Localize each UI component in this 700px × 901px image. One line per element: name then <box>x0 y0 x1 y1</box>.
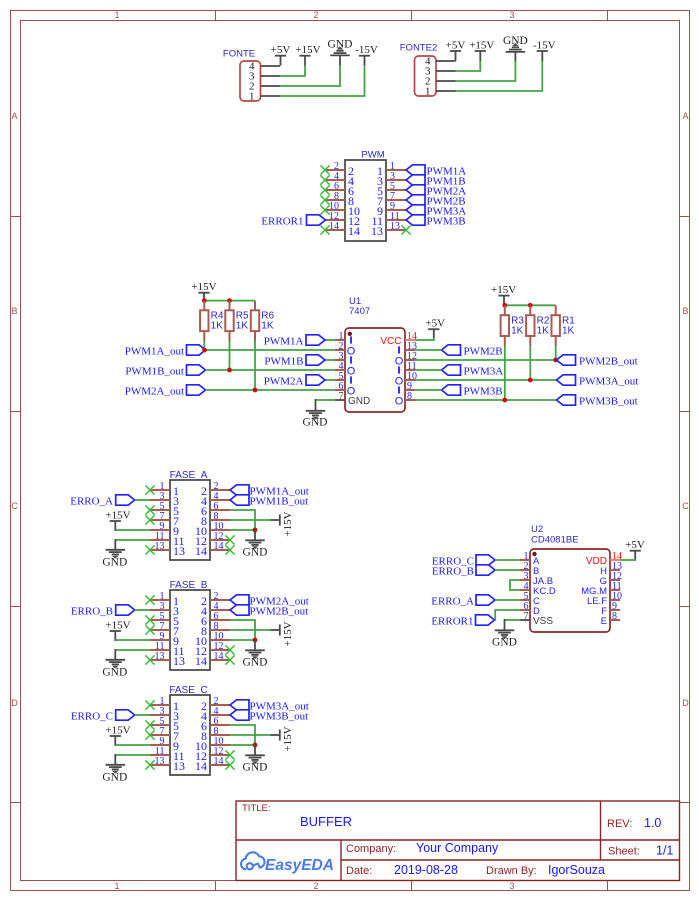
svg-text:14: 14 <box>329 221 339 232</box>
connector FONTE <box>240 61 261 101</box>
svg-text:CD4081BE: CD4081BE <box>531 535 579 546</box>
net port ERROR1 (PWM pin12) <box>307 215 326 225</box>
svg-text:1K: 1K <box>261 321 274 332</box>
svg-text:PWM3B_out: PWM3B_out <box>250 710 309 722</box>
svg-text:1: 1 <box>249 90 255 102</box>
svg-text:PWM1B_out: PWM1B_out <box>125 365 184 377</box>
svg-text:+15V: +15V <box>282 511 294 536</box>
power +15V right rotated (FASE C pin8) <box>271 734 280 736</box>
svg-text:PWM3A_out: PWM3A_out <box>579 375 638 387</box>
svg-text:1K: 1K <box>562 326 575 337</box>
wire +15V feed to resistor tops <box>204 300 255 302</box>
svg-text:8: 8 <box>612 611 617 622</box>
svg-text:GND: GND <box>243 547 268 559</box>
junction R1 bottom <box>553 358 558 363</box>
wire FASE A pin6 down <box>230 510 255 530</box>
wire FONTE2 pin3 to +15V <box>456 61 481 71</box>
svg-text:GND: GND <box>102 666 127 678</box>
junction FASE C right <box>253 743 258 748</box>
wire U2 pin3 to pin4 loop <box>510 580 520 590</box>
svg-text:3: 3 <box>509 881 514 891</box>
net port PWM1A (PWM) <box>406 165 425 175</box>
ground GND right (FASE C) <box>254 745 256 755</box>
power +5V at U2 pin14 <box>630 550 641 552</box>
net port PWM3A_out <box>557 375 576 385</box>
svg-text:14: 14 <box>195 544 207 558</box>
FASE C right pin stubs <box>210 704 230 706</box>
U1 right pin stubs 13-8 <box>405 349 415 351</box>
wire U1 pin14 to +5V <box>415 338 434 340</box>
svg-text:+15V: +15V <box>469 39 494 51</box>
no-connect X FASE C left pins <box>145 700 154 709</box>
svg-text:C: C <box>11 501 18 511</box>
connector PWM <box>345 160 386 241</box>
svg-text:1: 1 <box>114 881 119 891</box>
net port PWM1B_out (FASE A pin4) <box>230 495 249 505</box>
U1 pin name I/O marks left <box>350 336 352 343</box>
svg-text:A: A <box>682 111 688 121</box>
wire +15V to FASE A pin9 <box>115 529 150 531</box>
svg-text:14: 14 <box>214 756 224 767</box>
svg-text:13: 13 <box>173 759 185 773</box>
net port PWM2B (PWM) <box>406 195 425 205</box>
svg-text:ERROR1: ERROR1 <box>261 215 303 227</box>
net port PWM1B (U1 pin3) <box>306 355 325 365</box>
svg-text:1K: 1K <box>511 326 524 337</box>
resistor R1 1K <box>555 305 557 315</box>
svg-text:+15V: +15V <box>282 621 294 646</box>
svg-text:1.0: 1.0 <box>644 816 661 830</box>
wire FASE C pin6 down <box>230 725 255 745</box>
svg-text:+15V: +15V <box>295 44 320 56</box>
svg-text:TITLE:: TITLE: <box>242 803 271 814</box>
svg-text:GND: GND <box>328 38 353 50</box>
svg-text:14: 14 <box>195 759 207 773</box>
svg-text:13: 13 <box>390 221 400 232</box>
wire FASE A pin10 to junction <box>230 529 255 531</box>
wire ERRO_C to U2 pin1 <box>495 559 520 561</box>
junction at R5 top <box>227 298 232 303</box>
net port PWM3B_out (FASE C pin4) <box>230 710 249 720</box>
svg-text:13: 13 <box>371 224 383 238</box>
svg-text:8: 8 <box>407 391 412 402</box>
svg-text:FASE_B: FASE_B <box>170 580 208 591</box>
net port PWM2A (PWM) <box>406 185 425 195</box>
U1 pin7 stub (GND) <box>335 399 345 401</box>
U1 left pin stubs 1-6 <box>335 339 345 341</box>
svg-text:PWM2B_out: PWM2B_out <box>250 605 309 617</box>
svg-text:+5V: +5V <box>446 39 466 51</box>
svg-text:FONTE2: FONTE2 <box>400 43 437 54</box>
svg-text:GND: GND <box>303 416 328 428</box>
svg-text:ERRO_B: ERRO_B <box>432 565 474 577</box>
power +5V at U1 pin14 <box>428 328 439 330</box>
svg-text:FASE_C: FASE_C <box>169 685 207 696</box>
no-connect X FASE A left pins <box>145 485 154 494</box>
svg-text:O: O <box>347 345 356 357</box>
power +15V feeding R4 R5 R6 <box>198 292 209 294</box>
svg-text:B: B <box>682 306 688 316</box>
ground GND (FONTE2 pin2) <box>506 44 526 52</box>
wire PWM1A_out to U1 pin2 <box>206 349 336 351</box>
svg-text:1: 1 <box>425 85 431 97</box>
svg-text:PWM2B_out: PWM2B_out <box>579 355 638 367</box>
connector FONTE2 <box>415 56 437 96</box>
net port PWM1B_out <box>187 365 206 375</box>
svg-text:IgorSouza: IgorSouza <box>548 863 605 877</box>
net port ERRO_A (FASE A pin3) <box>116 495 135 505</box>
svg-text:7: 7 <box>339 391 344 402</box>
wire U1 pin12 to PWM2B_out <box>415 359 557 361</box>
net port PWM1B (PWM) <box>406 175 425 185</box>
U2 pin14 stub (VDD) <box>610 559 620 561</box>
svg-text:+15V: +15V <box>282 726 294 751</box>
power +5V (FONTE2 pin4) <box>450 50 461 52</box>
svg-text:Your Company: Your Company <box>416 841 499 855</box>
svg-text:+5V: +5V <box>625 539 645 551</box>
svg-text:2: 2 <box>313 881 318 891</box>
no-connect X FASE A right pins <box>225 535 234 544</box>
junction FASE B right <box>253 638 258 643</box>
no-connect X FASE B right pins <box>225 645 234 654</box>
net port ERROR1 (U2 pin6) <box>476 615 495 625</box>
svg-text:D: D <box>11 698 18 708</box>
resistor R6 1K <box>254 301 256 311</box>
svg-text:13: 13 <box>155 651 165 662</box>
svg-text:PWM2A_out: PWM2A_out <box>125 385 184 397</box>
net port PWM2B_out (FASE B pin4) <box>230 605 249 615</box>
FONTE2 pin stubs <box>436 60 456 62</box>
svg-text:1/1: 1/1 <box>656 844 673 858</box>
power +15V left (FASE B pin9) <box>110 630 121 632</box>
svg-text:GND: GND <box>492 637 517 649</box>
wire U1 pin8 to PWM3B_out <box>415 399 557 401</box>
wire +15V feed to resistor tops right <box>505 304 556 306</box>
net port PWM2A_out <box>187 385 206 395</box>
svg-text:7407: 7407 <box>349 306 370 317</box>
svg-text:ERROR1: ERROR1 <box>431 615 473 627</box>
power -15V (FONTE2 pin1) <box>537 50 548 52</box>
power -15V (FONTE pin1) <box>359 55 370 57</box>
no-connect X FASE C right pins <box>225 750 234 759</box>
net port PWM2A_out (FASE B pin2) <box>230 595 249 605</box>
svg-text:+15V: +15V <box>105 619 130 631</box>
logic IC U2 CD4081BE body <box>530 549 610 632</box>
wire +15V to FASE C pin9 <box>115 744 150 746</box>
power +15V feeding R1 R2 R3 <box>498 295 509 297</box>
no-connect X FASE B left pins <box>145 595 154 604</box>
no-connect X PWM pin 13 <box>401 225 410 234</box>
PWM left pin stubs <box>325 169 345 171</box>
svg-text:14: 14 <box>348 224 360 238</box>
EasyEDA logo <box>241 852 265 869</box>
svg-text:E: E <box>601 616 607 627</box>
power +5V (FONTE pin4) <box>275 55 286 57</box>
wire ERROR1 to U2 pin6 <box>495 610 521 620</box>
svg-text:ERRO_A: ERRO_A <box>431 595 474 607</box>
wire U2 pin7 to GND <box>505 619 521 621</box>
PWM right pin stubs <box>386 169 406 171</box>
FASE A right pin stubs <box>210 489 230 491</box>
junction at R3 top <box>502 303 507 308</box>
wire ERRO_B to U2 pin2 <box>495 569 520 571</box>
net port PWM1A_out <box>187 345 206 355</box>
wire ERRO_C to FASE C pin3 <box>135 714 150 716</box>
power +15V left (FASE C pin9) <box>110 735 121 737</box>
power +15V right rotated (FASE A pin8) <box>271 519 280 521</box>
svg-text:Date:: Date: <box>346 865 372 877</box>
junction R4 bottom on PWM1A_out wire <box>202 348 207 353</box>
svg-text:14: 14 <box>214 651 224 662</box>
junction R6 bottom on PWM2A_out wire <box>253 388 258 393</box>
net port PWM1A (U1 pin1) <box>306 335 325 345</box>
FASE A left pin stubs <box>150 489 170 491</box>
wire U1 pin10 to PWM3A_out <box>415 379 557 381</box>
resistor R5 1K <box>229 301 231 311</box>
wire PWM2A_out to U1 pin6 <box>206 389 336 391</box>
svg-text:+5V: +5V <box>271 44 291 56</box>
svg-text:A: A <box>11 111 17 121</box>
net port ERRO_A (U2 pin5) <box>476 595 495 605</box>
net port PWM3B (U1 pin9) <box>442 385 461 395</box>
svg-text:B: B <box>11 306 17 316</box>
svg-text:FONTE: FONTE <box>223 49 255 60</box>
svg-text:13: 13 <box>155 756 165 767</box>
wire PWM1B flag to U1 pin3 <box>325 359 335 361</box>
svg-text:PWM1B_out: PWM1B_out <box>250 495 309 507</box>
svg-text:VSS: VSS <box>533 616 553 627</box>
wire FONTE pin3 to +15V <box>280 66 305 76</box>
junction R3 bottom <box>502 398 507 403</box>
svg-text:GND: GND <box>102 771 127 783</box>
net port ERRO_C (FASE C pin3) <box>116 710 135 720</box>
power +15V (FONTE pin3) <box>299 55 310 57</box>
svg-text:1: 1 <box>114 10 119 20</box>
ground GND right (FASE A) <box>254 530 256 540</box>
junction at R4 top <box>202 298 207 303</box>
net port PWM3A (PWM) <box>406 205 425 215</box>
svg-text:+15V: +15V <box>105 509 130 521</box>
net port PWM1A_out (FASE A pin2) <box>230 485 249 495</box>
net port PWM3A_out (FASE C pin2) <box>230 700 249 710</box>
ground GND left (FASE A pin11) <box>106 550 126 558</box>
net port ERRO_B (U2 pin2) <box>476 565 495 575</box>
svg-text:14: 14 <box>195 654 207 668</box>
svg-text:PWM1A_out: PWM1A_out <box>125 345 184 357</box>
wire +15V to FASE B pin9 <box>115 639 150 641</box>
svg-text:13: 13 <box>173 544 185 558</box>
svg-text:+5V: +5V <box>425 318 445 330</box>
ground GND at U2 pin7 <box>495 630 515 638</box>
ground GND left (FASE C pin11) <box>106 765 126 773</box>
svg-text:GND: GND <box>243 657 268 669</box>
FASE B right pin stubs <box>210 599 230 601</box>
net port ERRO_C (U2 pin1) <box>476 555 495 565</box>
wire PWM2A flag to U1 pin5 <box>325 379 335 381</box>
svg-text:O: O <box>395 355 404 367</box>
svg-text:PWM3A: PWM3A <box>464 365 504 377</box>
svg-text:PWM3B: PWM3B <box>427 215 466 227</box>
U2 pin7 stub (VSS) <box>520 619 530 621</box>
U1 pin1 marker dot <box>348 332 352 336</box>
resistor R4 1K <box>203 301 205 311</box>
ground GND right (FASE B) <box>254 640 256 650</box>
svg-text:2019-08-28: 2019-08-28 <box>394 863 458 877</box>
net port PWM3B (PWM) <box>406 215 425 225</box>
no-connect X PWM pins 2 4 6 8 10 14 <box>320 165 329 174</box>
svg-text:U2: U2 <box>531 524 543 535</box>
svg-text:PWM1A: PWM1A <box>264 335 304 347</box>
U2 left pin stubs 1-6 <box>520 559 530 561</box>
svg-text:D: D <box>682 698 689 708</box>
wire FASE B pin6 down <box>230 620 255 640</box>
wire FASE B pin8 to +15V right <box>230 629 271 631</box>
net port PWM3A (U1 pin11) <box>442 365 461 375</box>
power +15V left (FASE A pin9) <box>110 520 121 522</box>
svg-text:PWM1B: PWM1B <box>264 355 303 367</box>
svg-text:VCC: VCC <box>380 336 401 347</box>
svg-text:1K: 1K <box>211 321 224 332</box>
connector FASE C <box>170 695 210 775</box>
wire FASE C pin11 to GND <box>115 754 150 756</box>
svg-text:Sheet:: Sheet: <box>608 846 640 858</box>
svg-text:EasyEDA: EasyEDA <box>265 857 334 874</box>
junction R2 bottom <box>528 378 533 383</box>
wire PWM1A flag to U1 pin1 <box>325 339 335 341</box>
FASE C left pin stubs <box>150 704 170 706</box>
svg-text:-15V: -15V <box>355 44 378 56</box>
svg-text:1K: 1K <box>537 326 550 337</box>
wire FASE C pin8 to +15V right <box>230 734 271 736</box>
svg-text:O: O <box>395 375 404 387</box>
svg-text:+15V: +15V <box>105 724 130 736</box>
wire FONTE2 pin2 to GND <box>456 62 516 82</box>
wire FASE A pin11 to GND <box>115 539 150 541</box>
op-amp/buffer U1 7407 body <box>345 328 405 412</box>
net port PWM3B_out <box>557 395 576 405</box>
U1 pin14 stub (VCC) <box>405 339 415 341</box>
wire U2 pin14 to +5V <box>620 559 635 560</box>
resistor R3 1K <box>504 305 506 315</box>
wire FONTE pin1 to -15V <box>280 66 365 96</box>
svg-text:PWM: PWM <box>361 150 384 161</box>
svg-text:GND: GND <box>348 396 370 407</box>
U2 pin1 marker dot <box>532 552 536 556</box>
svg-text:13: 13 <box>173 654 185 668</box>
ground GND at U1 pin7 <box>316 399 336 401</box>
connector FASE B <box>170 590 210 670</box>
net port PWM2A (U1 pin5) <box>306 375 325 385</box>
wire ERRO_B to FASE B pin3 <box>135 609 150 611</box>
junction R5 bottom on PWM1B_out wire <box>227 368 232 373</box>
svg-text:13: 13 <box>155 541 165 552</box>
wire ERRO_A to U2 pin5 <box>495 599 520 601</box>
svg-text:14: 14 <box>214 541 224 552</box>
wire FONTE pin2 to GND <box>280 66 340 87</box>
wire FASE C pin10 to junction <box>230 744 255 746</box>
U2 right pin stubs 13-8 <box>610 569 620 571</box>
wire FASE B pin11 to GND <box>115 649 150 651</box>
FASE B left pin stubs <box>150 599 170 601</box>
wire ERRO_A to FASE A pin3 <box>135 499 150 501</box>
svg-text:ERRO_C: ERRO_C <box>71 710 113 722</box>
wire U1 pin13 to PWM2B <box>415 349 442 351</box>
svg-text:BUFFER: BUFFER <box>300 814 352 829</box>
svg-text:2: 2 <box>313 10 318 20</box>
svg-text:PWM3B: PWM3B <box>464 385 503 397</box>
power +15V (FONTE2 pin3) <box>475 50 486 52</box>
wire FASE B pin10 to junction <box>230 639 255 641</box>
U1 pin name I/O marks right <box>398 346 400 353</box>
wire FONTE2 pin1 to -15V <box>456 61 543 91</box>
net port ERRO_B (FASE B pin3) <box>116 605 135 615</box>
svg-text:ERRO_B: ERRO_B <box>71 605 113 617</box>
svg-text:O: O <box>395 395 404 407</box>
svg-text:ERRO_A: ERRO_A <box>70 495 113 507</box>
svg-text:3: 3 <box>509 10 514 20</box>
svg-text:GND: GND <box>102 556 127 568</box>
wire U1 pin9 to PWM3B <box>415 389 442 391</box>
svg-text:O: O <box>347 365 356 377</box>
svg-text:REV:: REV: <box>607 818 632 830</box>
net port PWM2B (U1 pin13) <box>442 345 461 355</box>
wire U1 pin11 to PWM3A <box>415 369 442 371</box>
resistor R2 1K <box>529 305 531 315</box>
svg-text:Drawn By:: Drawn By: <box>486 865 537 877</box>
svg-text:+15V: +15V <box>191 281 216 293</box>
net port PWM2B_out <box>557 355 576 365</box>
svg-text:GND: GND <box>243 762 268 774</box>
connector FASE A <box>170 480 210 560</box>
junction at R2 top <box>528 303 533 308</box>
svg-text:1K: 1K <box>236 321 249 332</box>
junction FASE A right <box>253 528 258 533</box>
FONTE pin stubs <box>261 65 281 67</box>
svg-text:Company:: Company: <box>346 843 396 855</box>
svg-text:PWM2B: PWM2B <box>464 345 503 357</box>
ground GND (FONTE pin2) <box>330 47 350 55</box>
svg-text:PWM2A: PWM2A <box>264 375 304 387</box>
svg-text:7: 7 <box>524 611 529 622</box>
svg-text:PWM3B_out: PWM3B_out <box>579 395 638 407</box>
svg-text:FASE_A: FASE_A <box>170 470 208 481</box>
svg-text:GND: GND <box>503 35 528 47</box>
power +15V right rotated (FASE B pin8) <box>271 629 280 631</box>
ground GND left (FASE B pin11) <box>106 660 126 668</box>
title block frame <box>236 801 680 881</box>
wire PWM1B_out to U1 pin4 <box>206 369 336 371</box>
svg-text:C: C <box>682 501 689 511</box>
wire FASE A pin8 to +15V right <box>230 519 271 521</box>
svg-text:+15V: +15V <box>491 284 516 296</box>
svg-text:-15V: -15V <box>533 39 556 51</box>
